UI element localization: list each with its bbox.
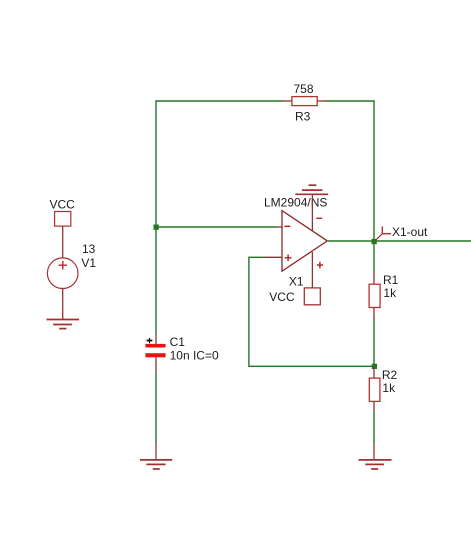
svg-text:X1: X1 <box>289 275 304 289</box>
ground (flipped, op-amp V- pin) <box>295 185 328 194</box>
wire feedback bottom horizontal <box>249 365 372 367</box>
svg-text:VCC: VCC <box>269 290 295 304</box>
resistor R2 <box>369 367 397 413</box>
svg-text:758: 758 <box>294 82 314 96</box>
VCC terminal X1 (op-amp supply box) <box>269 275 320 305</box>
capacitor C1 <box>145 335 219 372</box>
svg-text:1k: 1k <box>382 381 396 395</box>
ground (below C1) <box>140 444 172 470</box>
wire right vertical from R3 to output junction <box>373 101 375 241</box>
wire below C1 to ground <box>155 371 157 444</box>
node X1-out flag <box>375 225 429 241</box>
resistor R3 <box>283 82 325 124</box>
wire minus input horizontal <box>156 226 277 228</box>
ground (below R2) <box>359 444 392 470</box>
svg-text:R3: R3 <box>295 110 311 124</box>
op-amp U1 LM2904/NS <box>264 196 327 272</box>
wire top horizontal left of R3 <box>155 100 283 102</box>
op-amp V+ power pin <box>312 252 323 288</box>
node minus-input junction <box>154 225 159 230</box>
svg-text:VCC: VCC <box>50 198 76 212</box>
svg-text:13: 13 <box>82 242 96 256</box>
wire R1 bottom to divider junction <box>373 319 375 367</box>
svg-text:R2: R2 <box>382 368 398 382</box>
wire top horizontal right of R3 <box>325 100 375 102</box>
svg-text:X1-out: X1-out <box>392 225 428 239</box>
ground (below V1) <box>47 320 80 329</box>
svg-text:LM2904/NS: LM2904/NS <box>264 196 327 210</box>
wire feedback vertical <box>248 257 250 367</box>
node output junction <box>372 239 377 244</box>
wire top-left vertical (C1/minus-input net) <box>155 101 157 336</box>
svg-text:C1: C1 <box>170 335 186 349</box>
wire output junction down to R1 <box>373 241 375 273</box>
node divider junction <box>372 364 377 369</box>
wire plus input stub <box>249 256 265 258</box>
wire op-amp output to right edge (X1-out net) <box>328 240 471 242</box>
svg-text:V1: V1 <box>81 256 96 270</box>
wire R2 bottom to ground <box>373 412 375 444</box>
resistor R1 <box>369 273 399 320</box>
voltage source V1 with VCC terminal <box>47 198 96 320</box>
svg-text:10n IC=0: 10n IC=0 <box>170 348 219 362</box>
svg-text:R1: R1 <box>383 273 399 287</box>
svg-text:1k: 1k <box>383 286 397 300</box>
op-amp V- power pin <box>312 194 322 231</box>
